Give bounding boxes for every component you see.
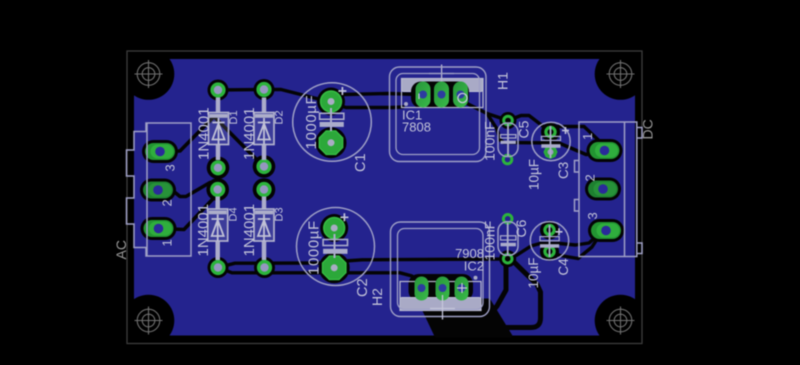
- capacitor C2 minus octagon pad: [323, 256, 346, 279]
- wire C3 plus stub to through trace: [549, 132, 552, 142]
- capacitor C2 body circle: [297, 208, 375, 286]
- capacitor C3 minus octagon pad: [544, 146, 557, 159]
- regulator IC2 pad 1: [415, 277, 429, 301]
- wire AC pad1 to D4 cathode: [159, 194, 218, 230]
- svg-text:1000µF: 1000µF: [306, 220, 323, 275]
- connector X1 AC outline: [127, 123, 192, 256]
- heatsink H2 outline outer: [391, 222, 490, 317]
- regulator IC1 body outline: [402, 79, 484, 108]
- svg-text:D4: D4: [228, 207, 240, 221]
- wire positive rail D1-D2-C1+: [218, 90, 329, 102]
- wire C6 bottom lower loop along board bottom edge: [487, 259, 541, 328]
- clearance C1 pads: [317, 88, 345, 116]
- regulator IC2 crosshair: [430, 295, 455, 320]
- diode D1 package: [209, 98, 229, 161]
- regulator IC1 tab silkscreen: [402, 65, 484, 93]
- connector X1 AC pad 1: [144, 220, 174, 237]
- clearance D1 pads: [208, 80, 229, 101]
- capacitor C3 symbol plates: [541, 126, 560, 158]
- heatsink H1 outline inner: [396, 74, 480, 155]
- diode D2 pads: [258, 84, 270, 173]
- wire C5 top to C3 plus: [508, 116, 549, 131]
- regulator IC2 pin1 dot: [474, 276, 478, 280]
- svg-text:1N4001: 1N4001: [241, 107, 258, 160]
- clearance AC pad3: [142, 140, 178, 163]
- clearance AC pad1: [141, 217, 177, 240]
- regulator IC1 pad 2: [434, 82, 449, 108]
- wire IC1 pin3 to C5 top: [460, 96, 508, 121]
- capacitor C4 body circle: [530, 222, 568, 260]
- svg-text:2: 2: [160, 199, 175, 206]
- capacitor C2 plus pad: [324, 218, 345, 239]
- svg-text:H1: H1: [495, 72, 511, 90]
- svg-text:1N4001: 1N4001: [195, 204, 212, 257]
- clearance D4 pads: [206, 178, 229, 201]
- svg-text:D1: D1: [228, 110, 240, 124]
- heatsink H1 outline outer: [390, 67, 487, 162]
- regulator IC1 pin1 dot: [404, 102, 408, 106]
- wire AC pad3 to D2 anode: [160, 117, 262, 166]
- fiducial mounting mark top-right: [607, 60, 635, 88]
- clearance IC2 pad band: [409, 274, 474, 301]
- svg-text:C3: C3: [556, 162, 571, 179]
- clearance DC pad3: [588, 219, 624, 242]
- svg-text:7808: 7808: [402, 120, 431, 135]
- wire negative rail D4-D3-C2-: [218, 259, 508, 268]
- fiducial mounting mark top-left: [135, 60, 163, 88]
- pour corner cutout bottom-right: [595, 295, 647, 347]
- pour cutout under IC2 tab: [419, 300, 511, 336]
- capacitor C1 body circle: [293, 83, 372, 162]
- clearance C6 bottom pad: [499, 250, 516, 267]
- capacitor C5 pads: [503, 116, 512, 164]
- pour corner cutout top-left: [123, 48, 175, 100]
- fiducial mounting mark bottom-right: [607, 307, 635, 335]
- wire C4 minus stub to DC pad3: [550, 236, 600, 259]
- heatsink H2 outline inner: [398, 229, 484, 310]
- capacitor C3 pads: [546, 127, 555, 136]
- svg-text:1N4001: 1N4001: [241, 204, 258, 257]
- svg-text:1: 1: [580, 133, 595, 140]
- regulator IC2 pad 3: [455, 277, 469, 301]
- diode D3 package: [254, 197, 274, 261]
- svg-text:1N4001: 1N4001: [196, 107, 213, 160]
- regulator IC1 pad 1: [416, 82, 431, 108]
- clearance DC pad1: [587, 139, 623, 162]
- regulator IC2 body outline: [400, 282, 481, 311]
- wire C1+ to IC1 pin1: [332, 94, 420, 100]
- svg-text:3: 3: [585, 212, 600, 219]
- svg-text:C4: C4: [556, 258, 571, 276]
- clearance D2 pads: [254, 79, 275, 100]
- clearance AC pad2: [140, 179, 176, 202]
- capacitor C6 symbol: [501, 223, 516, 255]
- capacitor C1 plus pad: [321, 91, 342, 112]
- capacitor C2 symbol plates: [323, 234, 347, 258]
- svg-text:100nF: 100nF: [482, 121, 498, 161]
- pour corner cutout bottom-left: [123, 295, 175, 347]
- svg-text:C6: C6: [513, 219, 529, 237]
- svg-text:C1: C1: [353, 153, 369, 172]
- wire C1+ lower run into IC1 pad band: [333, 104, 403, 108]
- wire C6 bottom down around H2 corner to tab cutout: [481, 259, 508, 322]
- svg-text:1: 1: [160, 239, 175, 246]
- connector X1 AC pad 2: [143, 182, 173, 199]
- capacitor C6 body outline: [498, 222, 518, 256]
- connector X2 DC pad 1: [590, 142, 620, 159]
- svg-text:D3: D3: [274, 207, 286, 221]
- capacitor C1 symbol plates: [320, 108, 344, 131]
- clearance C5 top pad: [500, 112, 517, 129]
- pour corner cutout top-right: [595, 48, 647, 100]
- diode D3 pads: [258, 184, 270, 274]
- capacitor C1 minus octagon pad: [319, 131, 342, 154]
- svg-text:1000µF: 1000µF: [303, 95, 320, 150]
- clearance C4 pads: [540, 221, 559, 240]
- capacitor C2 plus mark: [340, 213, 348, 221]
- clearance D3 pads: [253, 178, 276, 201]
- svg-text:10µF: 10µF: [527, 159, 542, 190]
- diode D1 pads: [212, 84, 224, 174]
- svg-text:2: 2: [583, 174, 598, 181]
- svg-text:C5: C5: [516, 120, 532, 138]
- capacitor C6 pads: [503, 215, 512, 264]
- capacitor C4 pads: [545, 225, 554, 256]
- clearance C2 pads: [320, 214, 348, 242]
- svg-text:D2: D2: [274, 110, 286, 124]
- svg-text:H2: H2: [369, 288, 385, 306]
- wire AC pad2 to D1 anode junction: [158, 183, 210, 197]
- connector X1 AC pad 3: [145, 143, 175, 160]
- regulator IC2 pad3 origin cross: [457, 283, 467, 293]
- regulator IC1 pad 3: [453, 82, 468, 108]
- capacitor C5 body outline: [498, 123, 518, 157]
- capacitor C3 plus mark: [562, 127, 569, 134]
- diode D2 package: [254, 98, 274, 161]
- svg-text:3: 3: [163, 164, 178, 171]
- svg-text:100nF: 100nF: [482, 221, 498, 261]
- connector X2 DC pad 3: [591, 222, 621, 239]
- fiducial mounting mark bottom-left: [135, 307, 163, 335]
- regulator IC1 pad3 drill ring: [458, 93, 467, 102]
- clearance C3 plus pad: [541, 123, 560, 142]
- board dimension outline: [127, 51, 642, 344]
- svg-text:DC: DC: [640, 119, 656, 139]
- connector X2 DC pad 2: [588, 181, 618, 198]
- svg-text:10µF: 10µF: [526, 257, 541, 288]
- regulator IC2 pad 2: [436, 277, 450, 301]
- wire C3 plus upper run to DC pad1: [544, 127, 605, 151]
- capacitor C1 plus mark: [338, 87, 346, 95]
- diode D4 package: [208, 197, 228, 261]
- capacitor C4 plus mark: [556, 228, 563, 235]
- diode D4 pads: [212, 184, 224, 274]
- regulator IC2 tab silkscreen: [400, 298, 481, 311]
- wire C6 bottom through C4 plates to DC pad3: [508, 231, 605, 259]
- wire negative rail lower run to IC2 pin1: [218, 268, 422, 288]
- clearance DC pad2: [585, 178, 621, 201]
- ground pour (board copper): [134, 59, 635, 336]
- connector X2 DC outline: [575, 122, 643, 257]
- regulator IC1 pad1 tick: [418, 94, 420, 100]
- wire through C5/C3 plates to DC pad1: [487, 114, 605, 155]
- capacitor C3 body circle: [532, 122, 570, 160]
- capacitor C5 symbol: [501, 124, 516, 156]
- capacitor C4 symbol plates: [540, 225, 559, 257]
- svg-text:AC: AC: [113, 240, 129, 259]
- clearance IC1 pad band: [411, 82, 469, 109]
